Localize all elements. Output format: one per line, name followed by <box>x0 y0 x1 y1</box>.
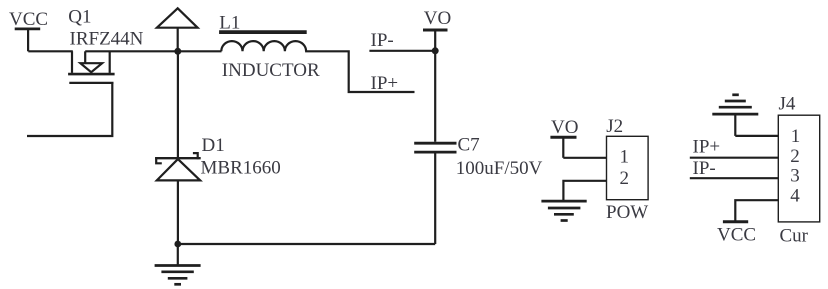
ground (main) <box>155 244 201 284</box>
svg-text:Q1: Q1 <box>68 7 91 28</box>
D1 schottky cathode bar <box>155 157 201 159</box>
connector J2 <box>606 116 648 223</box>
capacitor C7 <box>414 135 542 179</box>
power flag VCC (at J4) <box>717 222 756 246</box>
L1 core bar <box>219 30 307 34</box>
svg-text:4: 4 <box>790 185 800 206</box>
D1 schottky right hook <box>193 153 198 159</box>
wire J4 pin 1 <box>735 135 778 137</box>
power flag VO (at J2) <box>550 117 578 158</box>
Q1 body-diode stub <box>84 51 86 63</box>
node VO / IP- junction <box>432 47 439 54</box>
ground inverted (at J4 pin 1) <box>712 95 758 136</box>
Q1 drain lead <box>71 51 73 73</box>
connector J4 <box>778 94 819 247</box>
power flag VCC (top-left) <box>9 9 48 51</box>
node switch-node junction <box>174 48 181 55</box>
svg-text:IP-: IP- <box>371 30 394 51</box>
svg-text:POW: POW <box>606 202 648 223</box>
wire top rail right segment (Q1 source to inductor) <box>85 50 221 52</box>
wire C7 bottom lead <box>434 154 436 245</box>
svg-text:100uF/50V: 100uF/50V <box>456 158 543 179</box>
Q1 arrow <box>80 63 102 72</box>
svg-text:1: 1 <box>791 126 801 147</box>
C7 top plate <box>414 142 456 145</box>
svg-text:J2: J2 <box>606 116 623 137</box>
svg-text:IP+: IP+ <box>371 73 399 94</box>
svg-text:2: 2 <box>790 146 800 167</box>
power flag VO (top) <box>423 8 451 30</box>
ground (at J2) <box>541 201 586 220</box>
Q1 channel plate <box>68 73 115 76</box>
svg-text:1: 1 <box>620 146 630 167</box>
wire inductor output to IP+ stub <box>305 51 414 92</box>
wire bottom ground rail <box>178 243 435 245</box>
wire J4 pin 3 <box>690 177 779 179</box>
Q1 gate bar <box>69 82 113 84</box>
wire J2 pin 2 to ground <box>563 181 606 200</box>
L1 winding <box>221 41 306 51</box>
svg-text:INDUCTOR: INDUCTOR <box>222 60 320 81</box>
wire IP- net stub <box>369 50 435 52</box>
svg-text:D1: D1 <box>202 135 225 156</box>
node ground-rail junction <box>174 241 181 248</box>
svg-text:IP-: IP- <box>693 158 716 179</box>
diode D1 <box>155 51 281 244</box>
svg-text:VCC: VCC <box>717 225 756 246</box>
Q1 source lead <box>109 51 111 73</box>
J4 body <box>778 115 819 222</box>
svg-text:VO: VO <box>424 8 451 29</box>
D1 anode lead <box>177 180 179 244</box>
svg-text:IRFZ44N: IRFZ44N <box>70 29 144 50</box>
svg-text:MBR1660: MBR1660 <box>201 158 281 179</box>
svg-text:J4: J4 <box>779 94 796 115</box>
svg-text:VCC: VCC <box>9 9 48 30</box>
D1 triangle <box>157 159 200 180</box>
D1 schottky left hook <box>156 157 162 163</box>
svg-text:2: 2 <box>620 168 630 189</box>
svg-text:3: 3 <box>790 166 800 187</box>
wire top rail left segment (VCC to Q1 drain) <box>28 50 73 52</box>
power flag triangle (switch node) <box>157 8 198 51</box>
wire VO vertical to C7 <box>434 30 436 142</box>
svg-text:C7: C7 <box>458 135 480 156</box>
C7 bottom plate <box>414 151 456 154</box>
wire J4 pin 4 to VCC <box>735 200 778 222</box>
wire J2 pin 1 <box>563 157 606 159</box>
inductor L1 <box>219 13 320 82</box>
J2 body <box>607 136 649 199</box>
wire Q1 gate stub <box>27 83 112 136</box>
svg-text:Cur: Cur <box>780 226 809 247</box>
wire J4 pin 2 <box>690 157 779 159</box>
svg-text:IP+: IP+ <box>693 137 721 158</box>
D1 cathode lead <box>177 51 179 157</box>
transistor Q1 <box>68 51 115 83</box>
svg-text:VO: VO <box>551 117 578 138</box>
